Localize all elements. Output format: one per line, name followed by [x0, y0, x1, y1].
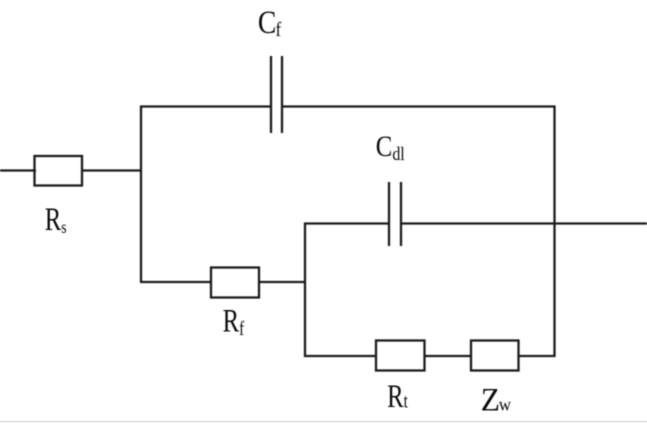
svg-text:Rf: Rf — [223, 303, 245, 339]
resistor Zw (Warburg impedance) — [471, 341, 519, 371]
wire bottom left segment — [304, 355, 376, 357]
wire Zw to bottom right corner — [519, 355, 556, 357]
svg-text:Cf: Cf — [258, 4, 282, 42]
wire Rt to Zw — [425, 355, 472, 357]
wire Cf to top right corner — [282, 105, 556, 107]
wire top left to Cf — [140, 105, 271, 107]
resistor Rf — [211, 268, 259, 298]
wire Cdl to right terminal — [401, 222, 647, 224]
wire inner vertical to Cdl — [304, 222, 389, 224]
svg-text:Zw: Zw — [481, 381, 512, 418]
wire Rf to inner vertical — [259, 281, 306, 283]
svg-text:Rs: Rs — [45, 202, 67, 238]
horizontal rule at page bottom — [0, 421, 647, 423]
wire Rs to left vertical — [82, 169, 142, 171]
wire left vertical branch — [140, 106, 142, 284]
svg-text:Rt: Rt — [387, 379, 408, 415]
svg-text:Cdl: Cdl — [376, 130, 405, 164]
capacitor Cdl — [389, 182, 401, 246]
wire left terminal to Rs — [0, 169, 36, 171]
capacitor Cf — [271, 56, 282, 133]
wire inner left vertical branch — [304, 223, 306, 358]
resistor Rs — [35, 156, 83, 186]
resistor Rt — [376, 341, 425, 371]
wire right vertical branch — [553, 106, 555, 358]
wire Rf left segment — [141, 281, 211, 283]
